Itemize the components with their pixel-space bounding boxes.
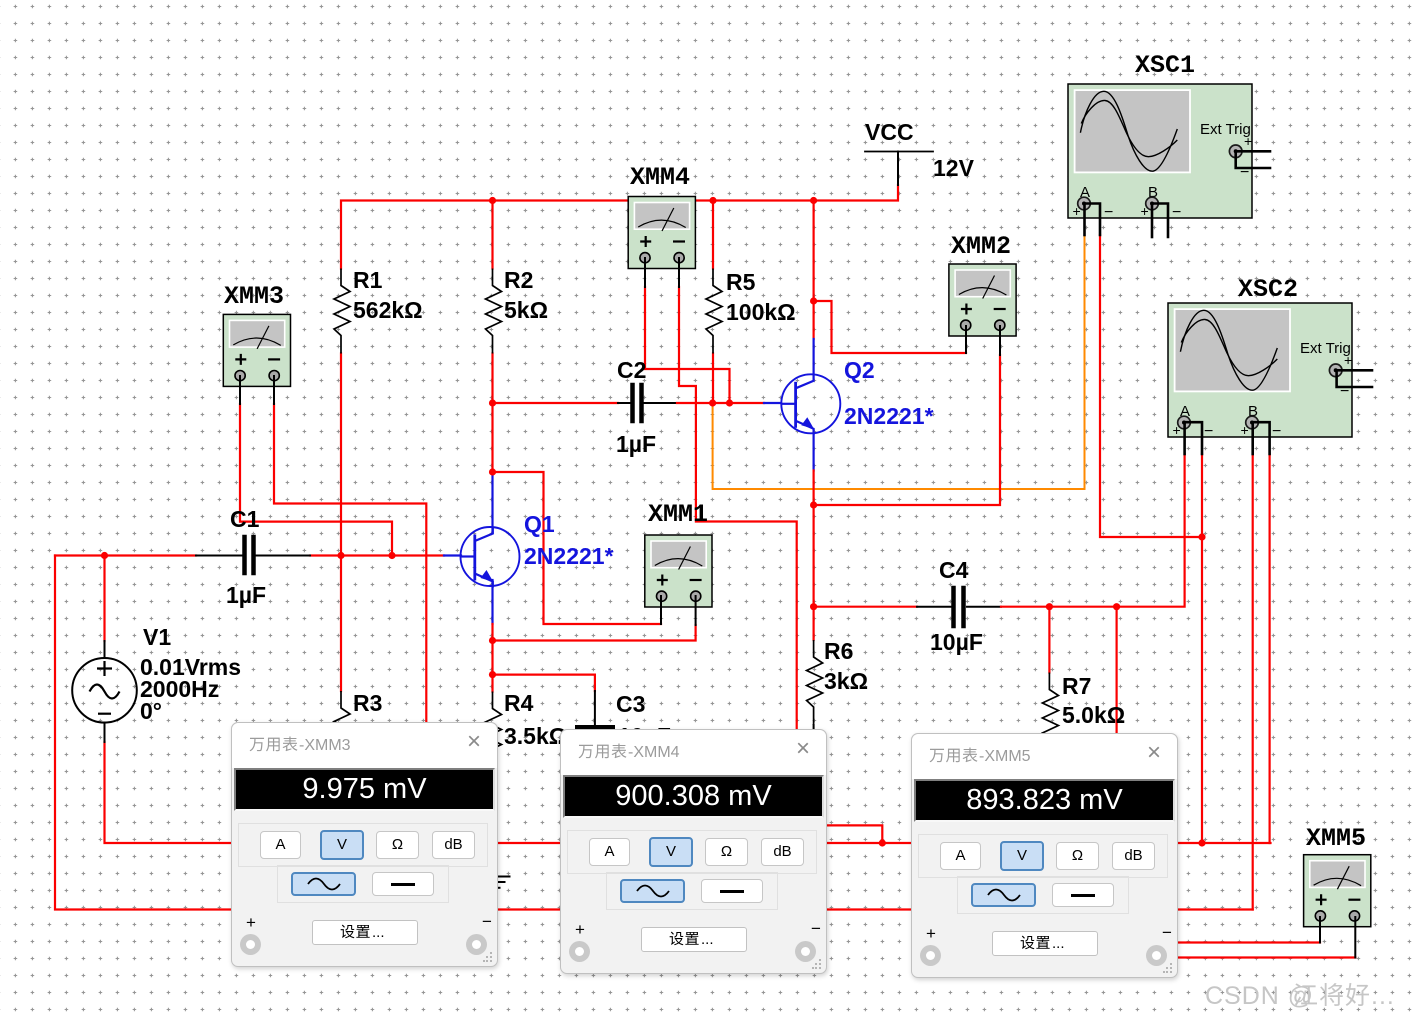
svg-text:2N2221*: 2N2221* <box>524 543 614 569</box>
multimeter dialog XMM3 <box>231 722 498 967</box>
wire: Q2 emitter node down to R6 <box>812 471 814 641</box>
wire: C2 line y=403 <box>493 402 619 404</box>
svg-text:XMM5: XMM5 <box>1306 824 1366 853</box>
wire: XSC1 Ext Trig stubs <box>1237 150 1270 153</box>
wire: XMM1 minus to emitter line <box>493 625 696 641</box>
resistor R2 <box>486 269 502 354</box>
wire: XSC1 A- red <box>1100 235 1202 537</box>
transistor Q1 <box>461 527 520 588</box>
svg-text:3.5kΩ: 3.5kΩ <box>504 723 567 749</box>
capacitor C1 plates <box>242 537 247 573</box>
wire: C3 top lead <box>594 691 596 725</box>
svg-text:XSC2: XSC2 <box>1238 275 1298 304</box>
transistor Q2 <box>781 374 840 435</box>
ground symbol <box>482 877 511 888</box>
wire: Q2 collector node <box>812 201 814 340</box>
svg-text:5kΩ: 5kΩ <box>504 297 548 323</box>
svg-text:562kΩ: 562kΩ <box>353 297 423 323</box>
svg-text:...: ... <box>1052 935 1065 952</box>
svg-text:0°: 0° <box>140 698 162 724</box>
svg-text:12V: 12V <box>933 155 975 181</box>
svg-text:XMM4: XMM4 <box>630 163 690 192</box>
svg-text:R2: R2 <box>504 267 533 293</box>
svg-text:VCC: VCC <box>865 119 914 145</box>
watermark <box>1205 982 1420 1019</box>
wire: XMM3 - lead <box>274 404 426 725</box>
svg-text:R1: R1 <box>353 267 383 293</box>
oscilloscope XSC1 <box>1068 84 1252 221</box>
wire: V1 top connection <box>103 556 105 642</box>
wire: Q1 base blue lead <box>444 554 461 556</box>
wire: R4/C3 tap <box>493 675 595 691</box>
svg-text:3kΩ: 3kΩ <box>824 668 868 694</box>
wire: C1 black leads <box>196 555 242 557</box>
wire: VCC black stub <box>897 152 899 186</box>
svg-text:CSDN @: CSDN @ <box>1205 982 1314 1010</box>
wire: x=1117 output drop (hidden below dialogs) <box>1115 607 1117 737</box>
svg-text:...: ... <box>1371 982 1395 1010</box>
wire: XMM5 terminal stubs <box>1320 917 1355 958</box>
svg-text:XSC1: XSC1 <box>1135 51 1195 80</box>
resistor R1 <box>334 269 350 354</box>
capacitor C3 plates <box>577 725 613 729</box>
wire: output line y=607 C4 <box>814 606 917 608</box>
wire: R2 column x=492.5 collector node <box>491 201 493 473</box>
svg-text:Q2: Q2 <box>844 357 875 383</box>
svg-text:2N2221*: 2N2221* <box>844 403 934 429</box>
wire: collector tap to XMM2 plus <box>814 301 966 353</box>
svg-text:5.0kΩ: 5.0kΩ <box>1062 702 1125 728</box>
svg-text:Q1: Q1 <box>524 511 555 537</box>
power symbol VCC bar <box>865 151 933 153</box>
wire: Q1 emitter blue <box>491 580 493 624</box>
wire: XMM5 - lead <box>1179 956 1355 958</box>
wire: Q1 emitter red to R4 <box>491 624 493 692</box>
wire: Q2 emitter blue <box>812 434 814 471</box>
svg-text:1µF: 1µF <box>226 582 266 608</box>
wire: XSC1 B terminal stubs <box>1151 204 1154 237</box>
wire: XMM3 + lead <box>240 404 392 556</box>
wire: R7 column <box>1048 607 1050 673</box>
wire: R6 bottom hidden under dialog <box>813 725 815 731</box>
wire: XMM2 minus to emitter line <box>814 355 1000 505</box>
multimeter dialog XMM5 <box>911 733 1178 978</box>
resistor R7 <box>1042 673 1058 758</box>
svg-text:C2: C2 <box>617 357 646 383</box>
wire: XMM2 terminal stubs <box>966 326 1000 355</box>
resistor R6 <box>807 640 823 725</box>
multimeter icon XMM4 <box>628 197 695 269</box>
svg-text:...: ... <box>701 931 714 948</box>
svg-text:XMM2: XMM2 <box>951 232 1011 261</box>
wire: V1 bottom to ground rail y=843 <box>105 742 1271 843</box>
wire: VCC top rail y=200 <box>341 185 898 269</box>
svg-text:...: ... <box>372 924 385 941</box>
svg-text:R6: R6 <box>824 638 853 664</box>
wire: R5 column x=713 <box>712 201 714 269</box>
wire: XMM4 - lead <box>679 287 797 729</box>
multimeter icon XMM1 <box>645 535 712 607</box>
capacitor C4 plates <box>951 588 956 626</box>
svg-text:V1: V1 <box>143 624 171 650</box>
oscilloscope XSC2 <box>1168 303 1352 440</box>
wire: collector tap to XMM1 plus <box>493 472 662 624</box>
svg-text:C4: C4 <box>939 557 969 583</box>
resistor R5 <box>706 269 722 354</box>
svg-text:-XMM3: -XMM3 <box>299 737 351 754</box>
svg-text:C1: C1 <box>230 506 260 532</box>
wire: XSC2 B terminal stubs <box>1251 423 1254 454</box>
wire: XMM1 terminal stubs <box>661 596 696 625</box>
svg-text:1µF: 1µF <box>616 431 656 457</box>
svg-text:R7: R7 <box>1062 673 1091 699</box>
wire: XMM4 + lead <box>645 287 730 403</box>
wire: XSC2 Ext Trig stubs <box>1338 369 1372 372</box>
svg-text:R3: R3 <box>353 690 382 716</box>
wire: XSC2 A terminal stubs <box>1183 423 1186 454</box>
source V1 <box>72 658 137 723</box>
wire: V1 black stubs <box>104 641 106 742</box>
wire: Q2 collector blue <box>812 339 814 374</box>
wire: XMM3 terminal stubs <box>240 376 274 404</box>
resistor R4 <box>486 692 502 777</box>
wire: XMM4 terminal stubs <box>645 258 679 287</box>
wire: C3 ground jog right of XMM4 dialog <box>828 825 882 843</box>
wire: orange XSC1 A to Q2 base <box>713 235 1085 489</box>
wire: left input loop to y=909 rail <box>55 556 1253 910</box>
svg-text:100kΩ: 100kΩ <box>726 299 796 325</box>
svg-text:XMM1: XMM1 <box>648 500 708 529</box>
capacitor C2 plates <box>630 385 635 421</box>
multimeter icon XMM2 <box>949 264 1016 336</box>
resistor R3 <box>334 691 350 776</box>
svg-text:R4: R4 <box>504 690 534 716</box>
svg-text:-XMM4: -XMM4 <box>628 744 680 761</box>
wire: XSC1 A terminal stubs <box>1083 204 1086 235</box>
multimeter icon XMM3 <box>223 314 290 386</box>
svg-text:C3: C3 <box>616 691 645 717</box>
multimeter icon XMM5 <box>1304 855 1371 927</box>
svg-text:10µF: 10µF <box>930 629 983 655</box>
instrument terminal stub wires (drawn over icons) <box>240 151 1372 957</box>
wire: Q2 base blue lead <box>764 402 781 404</box>
wire: Q1 collector blue <box>491 472 493 533</box>
wire: XMM5 + lead <box>1179 941 1320 943</box>
svg-text:XMM3: XMM3 <box>224 282 284 311</box>
wire: input line y=555 <box>55 554 196 556</box>
svg-text:R5: R5 <box>726 269 756 295</box>
wire: R1 column x=341 <box>340 354 342 692</box>
svg-text:-XMM5: -XMM5 <box>979 748 1031 765</box>
multimeter dialog XMM4 <box>560 729 827 974</box>
